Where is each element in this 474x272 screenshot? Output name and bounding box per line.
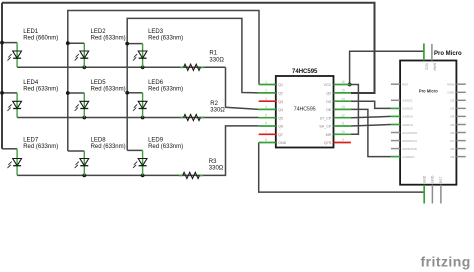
- svg-text:Pro Micro: Pro Micro: [419, 88, 438, 93]
- svg-text:9: 9: [342, 138, 344, 142]
- svg-text:MISO/D14: MISO/D14: [402, 139, 417, 143]
- wire: column3 bus up and over to 74HC595 Q2: [127, 18, 259, 150]
- node: rail2 LED5 junction: [82, 116, 86, 120]
- svg-text:15: 15: [341, 89, 345, 93]
- node: VCC junction: [348, 83, 352, 87]
- Pro Micro left pin A0/D18 (green, SH_CP): [391, 124, 400, 126]
- wire: DS to Pro Micro A2/D20: [351, 101, 391, 108]
- svg-text:A3/D21: A3/D21: [402, 99, 413, 103]
- LED3 pins: [142, 44, 144, 68]
- 74HC595 pin labels right: [319, 83, 332, 145]
- svg-text:VCC: VCC: [424, 63, 428, 71]
- svg-text:Q7S: Q7S: [324, 141, 332, 145]
- Pro Micro left pin RST (gray): [391, 83, 400, 85]
- node: rail2 LED6 junction: [141, 116, 145, 120]
- pin leg DS pin14: [334, 100, 351, 102]
- Pro Micro bottom pin GND (gray): [431, 185, 433, 204]
- svg-text:LED5: LED5: [91, 80, 107, 86]
- wire: column2 bus up and over to 74HC595 Q1: [68, 11, 259, 152]
- svg-text:13: 13: [341, 105, 345, 109]
- svg-text:11: 11: [341, 122, 345, 126]
- Pro Micro bottom pin RST (gray): [440, 185, 442, 204]
- Pro Micro left pin MOSI/D16 (gray): [391, 148, 400, 150]
- wire: row1 cathode rail through R1 down to 74HC595 Q4: [17, 67, 259, 109]
- svg-text:VCC: VCC: [324, 83, 332, 87]
- svg-text:GND: GND: [447, 91, 455, 95]
- svg-text:1: 1: [265, 80, 267, 84]
- svg-text:MOSI/D16: MOSI/D16: [402, 147, 417, 151]
- wire: VCC pin up and over to Pro Micro VCC top pin: [350, 51, 424, 84]
- svg-text:A0/D18: A0/D18: [402, 123, 413, 127]
- Pro Micro left pin labels: [402, 83, 417, 159]
- wire: SH_CP to Pro Micro A0/D18: [351, 125, 391, 127]
- svg-text:A1/D19: A1/D19: [402, 115, 413, 119]
- svg-text:74HC595: 74HC595: [294, 107, 316, 113]
- svg-text:Red (633nm): Red (633nm): [148, 36, 183, 42]
- svg-text:LED8: LED8: [91, 138, 107, 144]
- pin leg Q0 pin15: [334, 92, 351, 94]
- svg-text:D3: D3: [450, 107, 454, 111]
- LED9 pins: [142, 150, 144, 175]
- svg-text:4: 4: [265, 105, 267, 109]
- wire: col3 stub to LED6: [127, 92, 142, 94]
- 74HC595 right pin legs: VCC pin16: [334, 84, 351, 86]
- LED7 pins: [16, 149, 18, 176]
- 74HC595 pin labels left: [278, 83, 286, 145]
- svg-text:RST: RST: [439, 176, 443, 183]
- wire: col2 stub to LED5: [68, 92, 85, 94]
- svg-text:ST_CP: ST_CP: [320, 116, 332, 120]
- svg-text:GND: GND: [278, 141, 286, 145]
- LED9 Red (633nm): [133, 159, 147, 169]
- LED1 Red (660nm): [7, 51, 21, 61]
- svg-text:Q3: Q3: [278, 100, 283, 104]
- pin leg GND pin8: [259, 142, 276, 144]
- svg-text:3: 3: [265, 97, 267, 101]
- svg-text:74HC595: 74HC595: [292, 69, 318, 75]
- svg-text:MR: MR: [326, 133, 332, 137]
- svg-text:Red (633nm): Red (633nm): [91, 144, 126, 150]
- resistor R1 330 ohm: [180, 66, 184, 68]
- svg-text:R1: R1: [209, 51, 217, 57]
- svg-text:Q5: Q5: [278, 116, 283, 120]
- svg-text:Q1: Q1: [278, 83, 283, 87]
- svg-text:fritzing: fritzing: [421, 254, 471, 270]
- pin leg Q7 pin7 (unrouted, red): [259, 133, 277, 135]
- wire: row2 stub to LED4: [2, 92, 17, 94]
- svg-text:SCLK/D15: SCLK/D15: [402, 131, 417, 135]
- svg-text:7: 7: [265, 130, 267, 134]
- wire: left column bus: [1, 3, 3, 149]
- svg-text:LED2: LED2: [91, 29, 107, 35]
- svg-text:330Ω: 330Ω: [210, 108, 225, 114]
- svg-text:Red (633nm): Red (633nm): [148, 144, 183, 150]
- pin leg SH_CP pin11: [334, 125, 351, 127]
- svg-text:Red (633nm): Red (633nm): [23, 144, 58, 150]
- svg-text:D4: D4: [450, 115, 454, 119]
- 74HC595 pin numbers left 1-8: [265, 80, 267, 142]
- Pro Micro top pin VCC (connected, green): [423, 43, 425, 60]
- pin leg Q6 pin6: [259, 125, 276, 127]
- svg-text:Q0: Q0: [326, 92, 331, 96]
- microcontroller U2: Pro Micro board body: [400, 61, 456, 185]
- svg-text:D9: D9: [450, 155, 454, 159]
- resistor R2 330 ohm: [180, 117, 184, 119]
- svg-text:A10/D10: A10/D10: [402, 155, 414, 159]
- svg-text:Red (633nm): Red (633nm): [91, 86, 126, 92]
- Pro Micro left pin A1/D19 (green, ST_CP): [391, 115, 400, 117]
- LED4 pins: [16, 93, 18, 118]
- svg-text:LED7: LED7: [23, 138, 39, 144]
- svg-text:Q4: Q4: [278, 108, 283, 112]
- wire: row3 cathode rail through R3 up to 74HC595 Q6: [17, 126, 259, 175]
- 74HC595 left pin legs: Q1 pin1: [259, 84, 276, 86]
- wire: col3 stub to LED3: [127, 43, 142, 45]
- LED4 Red (633nm): [7, 101, 21, 111]
- wire: col3 stub to LED9: [127, 149, 142, 151]
- Pro Micro left pin A2/D20 (green, DS): [391, 107, 400, 109]
- wire: 74HC595 GND down and right to Pro Micro bottom GND pin: [259, 143, 425, 193]
- svg-text:D8: D8: [450, 147, 454, 151]
- Pro Micro left pin MISO/D14 (gray): [391, 140, 400, 142]
- wire: col2 stub to LED8: [68, 150, 85, 152]
- pin leg MR pin10: [334, 133, 351, 135]
- svg-text:16: 16: [341, 80, 345, 84]
- pin leg ST_CP pin12: [334, 117, 351, 119]
- wire: ST_CP to Pro Micro A1/D19: [351, 116, 391, 117]
- svg-text:330Ω: 330Ω: [209, 166, 224, 172]
- svg-text:OE: OE: [326, 108, 332, 112]
- Pro Micro bottom pin GND (green, connected): [423, 185, 425, 204]
- svg-text:2: 2: [265, 89, 267, 93]
- svg-text:LED6: LED6: [148, 80, 164, 86]
- wire: top rail from left bus to Q0 (down at x=374.5, left at y=93): [2, 3, 375, 93]
- svg-text:LED3: LED3: [148, 29, 164, 35]
- Pro Micro left pin SCLK/D15 (gray): [391, 132, 400, 134]
- node: col2 row1 junction: [66, 41, 70, 45]
- LED6 Red (633nm): [133, 101, 147, 111]
- svg-text:Q2: Q2: [278, 92, 283, 96]
- Pro Micro top pin RAW (gray): [431, 44, 433, 61]
- svg-text:6: 6: [265, 122, 267, 126]
- LED6 pins: [142, 93, 144, 118]
- wire: OE to Pro Micro A10/D10: [351, 109, 391, 156]
- pin leg Q2 pin2: [259, 92, 276, 94]
- svg-text:RAW: RAW: [432, 63, 436, 71]
- LED8 pins: [83, 151, 85, 175]
- LED5 pins: [83, 93, 85, 118]
- svg-text:RST: RST: [402, 83, 408, 87]
- pin leg Q7S pin9 (unrouted, red): [334, 142, 351, 144]
- node: left bus row2 junction: [0, 91, 4, 95]
- node: col2 row2 junction: [66, 91, 70, 95]
- svg-text:5: 5: [265, 113, 267, 117]
- pin leg Q4 pin4: [259, 108, 276, 110]
- svg-text:Q6: Q6: [278, 125, 283, 129]
- resistor R3 330 ohm: [179, 174, 183, 176]
- svg-text:D5: D5: [450, 123, 454, 127]
- svg-text:Red (660nm): Red (660nm): [23, 36, 58, 42]
- svg-text:LED9: LED9: [148, 138, 164, 144]
- svg-text:8: 8: [265, 138, 267, 142]
- svg-text:DS: DS: [326, 100, 332, 104]
- svg-text:Red (633nm): Red (633nm): [91, 36, 126, 42]
- svg-text:Red (633nm): Red (633nm): [148, 86, 183, 92]
- svg-text:LED1: LED1: [23, 29, 39, 35]
- svg-text:GND: GND: [431, 175, 435, 183]
- node: rail1 LED3 junction: [141, 65, 145, 69]
- svg-text:14: 14: [341, 97, 345, 101]
- node: rail1 LED2 junction: [82, 65, 86, 69]
- LED2 pins: [83, 43, 85, 67]
- svg-text:R2: R2: [210, 101, 218, 107]
- Pro Micro right pin labels: [447, 83, 455, 159]
- node: rail3 LED9 junction: [141, 174, 145, 178]
- wire: row1 stub to LED1: [2, 42, 17, 44]
- wire: row3 stub to LED7: [2, 148, 17, 150]
- svg-text:D2: D2: [450, 99, 454, 103]
- svg-text:Red (633nm): Red (633nm): [23, 86, 58, 92]
- svg-text:D7: D7: [450, 139, 454, 143]
- wire: VCC to MR jumper: [350, 85, 359, 135]
- node: rail3 LED8 junction: [82, 174, 86, 178]
- svg-text:LED4: LED4: [23, 80, 39, 86]
- LED7 Red (633nm): [7, 159, 21, 169]
- LED8 Red (633nm): [74, 159, 88, 169]
- Pro Micro left pin A10/D10 (green, OE): [391, 156, 400, 158]
- pin leg OE pin13: [334, 108, 351, 110]
- wire: row2 cathode rail through R2 to 74HC595 Q5: [17, 117, 259, 119]
- Pro Micro left pin A3/D21 (gray): [391, 99, 400, 101]
- svg-text:Pro Micro: Pro Micro: [434, 51, 462, 57]
- svg-text:D6: D6: [450, 131, 454, 135]
- node: col3 row2 junction: [125, 91, 129, 95]
- svg-text:10: 10: [341, 130, 345, 134]
- svg-text:RAW: RAW: [447, 83, 454, 87]
- 74HC595 pin numbers right 16-9: [341, 80, 345, 142]
- pin leg Q3 pin3 (unrouted, red): [259, 100, 277, 102]
- pin leg Q5 pin5: [259, 117, 276, 119]
- svg-text:GND: GND: [422, 175, 426, 183]
- node: left bus row1 junction: [0, 41, 4, 45]
- wire: col2 stub to LED2: [68, 42, 85, 44]
- LED1 pins (green legs): [16, 43, 18, 68]
- svg-text:12: 12: [341, 113, 345, 117]
- svg-text:Q7: Q7: [278, 133, 283, 137]
- Pro Micro right pin legs (all gray stubs): [456, 84, 465, 156]
- svg-text:330Ω: 330Ω: [209, 57, 224, 63]
- LED5 Red (633nm): [74, 101, 88, 111]
- LED3 Red (633nm): [133, 51, 147, 61]
- svg-text:SH_CP: SH_CP: [319, 125, 332, 129]
- svg-text:A2/D20: A2/D20: [402, 107, 413, 111]
- node: col3 row1 junction: [125, 42, 129, 46]
- op-amp-style IC U1: 74HC595 shift register body: [276, 76, 334, 148]
- svg-text:R3: R3: [209, 159, 217, 165]
- LED2 Red (633nm): [74, 51, 88, 61]
